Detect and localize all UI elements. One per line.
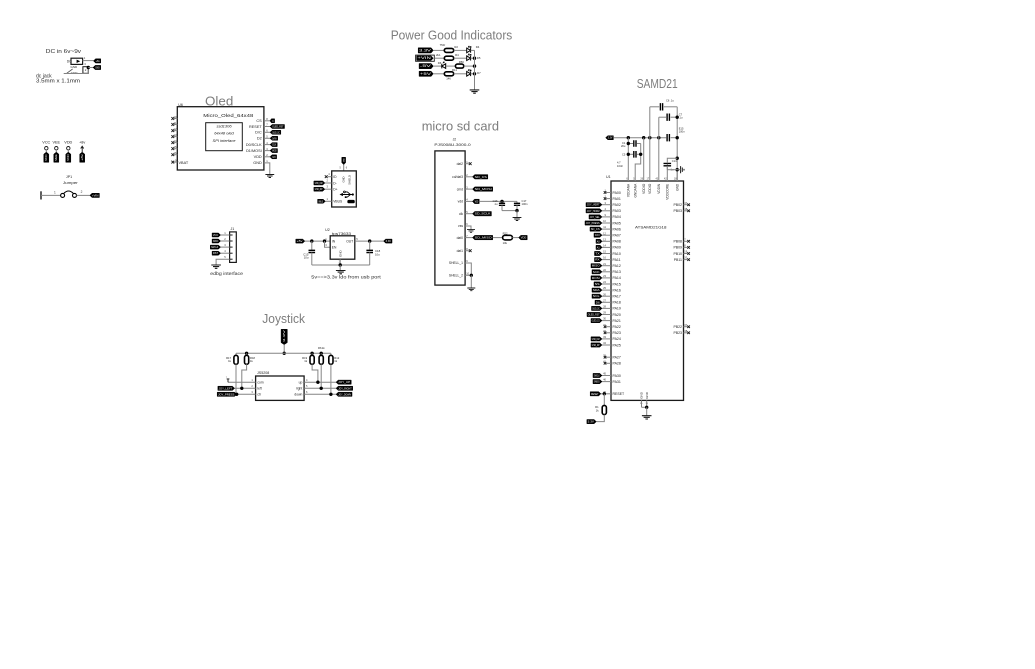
svg-text:JOY_HORZ: JOY_HORZ (587, 210, 600, 213)
svg-text:3.3V: 3.3V (588, 421, 595, 424)
svg-text:2k1: 2k1 (436, 53, 441, 57)
wire R50 to rail (464, 65, 475, 67)
svg-text:64x48 oled: 64x48 oled (214, 131, 234, 136)
wire R17 down to ctr row (235, 364, 237, 394)
svg-text:C14: C14 (672, 159, 677, 163)
svg-text:SS: SS (595, 283, 600, 286)
svg-text:GND: GND (645, 391, 649, 399)
net label VDD (vertical) (66, 152, 71, 162)
svg-text:GND: GND (253, 161, 262, 165)
capacitor C17 (516, 201, 518, 202)
svg-text:dat1: dat1 (457, 249, 464, 253)
svg-text:+VIN: +VIN (92, 194, 99, 197)
svg-text:cmd: cmd (457, 187, 463, 191)
wire to bottom ground symbol (646, 407, 648, 415)
dc barrel jack J? body (71, 58, 83, 64)
svg-text:VEE: VEE (52, 141, 60, 145)
wire VDDIO column 1 (643, 138, 645, 169)
svg-text:MOSI: MOSI (272, 150, 277, 153)
svg-text:ATSAMD21G18: ATSAMD21G18 (635, 225, 667, 230)
svg-text:GNDANA: GNDANA (634, 183, 638, 198)
JS5208 pin 3 ctr + net label JOY_PRESS (237, 393, 256, 395)
svg-text:GND: GND (71, 65, 79, 69)
J1 pin 2 + net label SWDIO (230, 240, 233, 242)
junction row2 (473, 57, 476, 60)
net label 3.3V (418, 48, 433, 53)
svg-text:OUT: OUT (346, 239, 353, 243)
svg-text:D0/SCLK: D0/SCLK (246, 143, 262, 147)
svg-text:USB_DP: USB_DP (592, 344, 600, 347)
connector J2 body (435, 151, 465, 285)
svg-text:PA04: PA04 (613, 215, 621, 219)
svg-text:10u: 10u (375, 253, 380, 257)
svg-text:100n: 100n (522, 202, 528, 206)
junction shell (470, 274, 473, 277)
svg-text:PA22: PA22 (613, 325, 621, 329)
wire label to bus (283, 345, 285, 354)
wire VDDANA column (627, 138, 629, 169)
net label VCC (vertical) (44, 152, 49, 162)
svg-text:J1: J1 (231, 227, 235, 231)
noop (667, 169, 677, 171)
svg-text:JOY_LEFT: JOY_LEFT (219, 387, 233, 390)
svg-text:JOY_UP: JOY_UP (338, 381, 350, 384)
wire R19 down to up row (312, 364, 318, 382)
wire shield label to usb body (343, 165, 345, 171)
svg-text:R11: R11 (452, 68, 457, 72)
svg-text:PB23: PB23 (673, 331, 682, 335)
svg-text:USB_DP: USB_DP (315, 188, 323, 191)
svg-text:PA11: PA11 (613, 258, 621, 262)
junction bottom gnd (645, 406, 648, 409)
wire +VIN to R4 (434, 57, 444, 59)
wire R12 down to down row (330, 364, 332, 394)
capacitor C6 (650, 106, 659, 108)
svg-text:JOY_PRESS: JOY_PRESS (218, 393, 235, 396)
ground symbol at vss (467, 230, 475, 233)
svg-text:VBUS: VBUS (318, 200, 323, 203)
svg-text:MOSI: MOSI (592, 277, 600, 280)
svg-text:R50: R50 (459, 60, 465, 64)
svg-text:U2: U2 (325, 228, 330, 232)
svg-text:VCC: VCC (42, 141, 50, 145)
net label +8v (vertical) (80, 152, 85, 162)
wire shell to ground (470, 275, 472, 288)
svg-text:down: down (294, 393, 302, 397)
wire pin1 to +8v label (83, 60, 94, 62)
svg-text:JOY_RIGHT: JOY_RIGHT (338, 387, 352, 390)
capacitor C1 (ana decoupling) (628, 143, 633, 145)
capacitor C15 (311, 241, 313, 250)
svg-text:up: up (299, 380, 303, 384)
net label VEE (vertical) (54, 152, 59, 162)
junction on supply wire (657, 136, 660, 139)
jumper JP1 symbol (61, 193, 65, 197)
net label +5V (419, 71, 433, 76)
svg-text:RX: RX (595, 259, 600, 262)
svg-text:SD_SCLK: SD_SCLK (475, 213, 491, 216)
svg-text:C5: C5 (622, 152, 626, 156)
svg-text:PA01: PA01 (613, 197, 621, 201)
svg-text:PB03: PB03 (673, 209, 682, 213)
svg-text:2: 2 (81, 190, 83, 194)
oled module U6 body (177, 107, 264, 170)
svg-text:10u: 10u (304, 256, 309, 260)
LED D5 (467, 56, 471, 61)
net label 3.3V (mcu supply) (606, 136, 614, 140)
LED D4 (467, 48, 471, 53)
svg-text:D4: D4 (476, 45, 480, 49)
svg-text:micro sd card: micro sd card (422, 119, 499, 134)
wire R22 to VDD label (512, 237, 518, 239)
svg-text:MISO: MISO (592, 265, 600, 268)
svg-text:SD_CS: SD_CS (591, 228, 600, 231)
svg-text:10: 10 (174, 115, 177, 119)
junction R6 top (320, 352, 323, 355)
svg-text:CS: CS (272, 120, 274, 123)
capacitor E15 (series on supply wire) (667, 134, 669, 141)
capacitor C14 (VDDCORE) (666, 163, 668, 169)
svg-text:SWCLK: SWCLK (594, 375, 600, 378)
svg-text:PA03: PA03 (613, 209, 621, 213)
wire pin2 to GND label (88, 67, 93, 69)
svg-text:VDD: VDD (475, 200, 479, 203)
svg-text:OLED_DC: OLED_DC (272, 131, 280, 134)
svg-text:SD_MOSI: SD_MOSI (475, 188, 492, 191)
svg-text:3.5mm x 1.1mm: 3.5mm x 1.1mm (36, 79, 80, 85)
ground symbol (sideways) at mcu gnd (681, 166, 684, 173)
svg-text:16: 16 (174, 151, 177, 155)
svg-text:PA31: PA31 (613, 380, 621, 384)
wire R6 down to right row (320, 364, 322, 388)
svg-text:VBUS: VBUS (333, 200, 343, 204)
svg-text:PA09: PA09 (613, 246, 621, 250)
svg-text:14: 14 (174, 139, 177, 143)
svg-text:+VIN: +VIN (417, 56, 432, 60)
svg-text:20u: 20u (621, 144, 626, 148)
svg-text:SHELL_1: SHELL_1 (449, 261, 463, 265)
svg-text:PA06: PA06 (613, 227, 621, 231)
ground symbol pgi (470, 90, 480, 93)
junction at C18 (368, 239, 371, 242)
svg-text:DATA: DATA (272, 137, 277, 140)
svg-text:+8v: +8v (79, 141, 85, 145)
junction C5 (627, 153, 630, 156)
svg-text:TX: TX (595, 253, 600, 256)
wire C14 bottom to gnd col (666, 166, 668, 170)
resistor R22 (503, 235, 513, 240)
svg-text:OLED_CS: OLED_CS (592, 320, 600, 323)
svg-text:VDDANA: VDDANA (627, 183, 631, 197)
svg-text:15: 15 (174, 145, 177, 149)
svg-text:13: 13 (174, 133, 177, 137)
svg-text:PA21: PA21 (613, 319, 621, 323)
svg-text:10nF: 10nF (617, 164, 623, 168)
svg-text:10k: 10k (503, 241, 508, 245)
wire jumper pin2 to label (77, 194, 90, 196)
capacitor C7 (659, 116, 666, 118)
oled NC pin 14 (174, 142, 177, 144)
wire D4 to rail (471, 49, 475, 51)
junction at EN branch (323, 239, 326, 242)
junction reset pullup (603, 392, 606, 395)
svg-text:100n: 100n (679, 130, 685, 134)
junction on ground rail (339, 263, 342, 266)
svg-text:3V3: 3V3 (272, 156, 276, 159)
svg-text:PA07: PA07 (613, 234, 621, 238)
oled NC pin 11 (174, 124, 177, 126)
junction on supply wire (648, 136, 651, 139)
JS5208 pin 2 left + net label JOY_LEFT (235, 387, 256, 389)
J1 pin 5 to ground (230, 258, 233, 260)
U2 GND pin wire (339, 259, 341, 265)
ground symbol below U2 (336, 271, 346, 274)
svg-text:D7: D7 (477, 71, 481, 75)
svg-text:PA15: PA15 (613, 282, 621, 286)
wire GNDANA column (635, 144, 641, 170)
svg-text:VDDIO: VDDIO (642, 183, 646, 194)
svg-text:JS5208: JS5208 (257, 371, 269, 375)
svg-text:PB08: PB08 (673, 240, 682, 244)
capacitor C18 (369, 241, 371, 250)
svg-text:PA05: PA05 (613, 221, 621, 225)
svg-text:PA19: PA19 (613, 307, 621, 311)
J1 pin 1 + net label VCC (230, 234, 233, 236)
svg-text:.1u: .1u (670, 98, 674, 102)
svg-text:3.3V: 3.3V (608, 137, 613, 140)
svg-text:GND: GND (95, 67, 100, 70)
svg-text:com: com (257, 380, 263, 384)
svg-text:OLED_RST: OLED_RST (272, 126, 284, 129)
svg-text:OLED_RST: OLED_RST (588, 314, 600, 317)
svg-text:SCL: SCL (593, 295, 601, 298)
svg-text:SHELL_2: SHELL_2 (449, 274, 463, 278)
svg-text:PA12: PA12 (613, 264, 621, 268)
svg-text:GND: GND (676, 183, 680, 191)
svg-text:dat2: dat2 (457, 162, 464, 166)
wire gnd col to ground (677, 169, 680, 171)
svg-text:R22: R22 (503, 232, 508, 236)
svg-text:PA20: PA20 (613, 313, 621, 317)
svg-text:clk: clk (459, 212, 463, 216)
svg-text:right: right (296, 387, 302, 391)
junction at jack pin2 (87, 66, 90, 69)
jack switch lever (64, 69, 73, 74)
svg-text:USB_DM: USB_DM (592, 338, 600, 341)
svg-text:RESET: RESET (613, 392, 626, 396)
junction R18 top (245, 352, 248, 355)
svg-text:PA28: PA28 (613, 362, 621, 366)
svg-text:PA08: PA08 (613, 240, 621, 244)
svg-text:R4: R4 (455, 53, 459, 57)
svg-text:3.3V: 3.3V (282, 330, 286, 342)
JS5208 pin 1 com wire to gnd flag (228, 381, 256, 383)
net label 3.3V (joystick supply, vertical) (281, 329, 287, 344)
resistor R2 (444, 48, 453, 52)
resistor R6 1k (320, 353, 322, 355)
wire +5V to R11 (433, 73, 444, 75)
joystick supply bus (236, 352, 331, 354)
svg-text:SWCLK: SWCLK (211, 246, 218, 249)
svg-text:PA24: PA24 (613, 337, 621, 341)
mcu U1 body ATSAMD21G18 (611, 181, 684, 400)
wire 3.3V to R2 (433, 49, 444, 51)
svg-text:D1/MOSI: D1/MOSI (246, 149, 262, 153)
svg-text:-5V: -5V (420, 64, 433, 68)
resistor R1 1k (reset pullup) (603, 394, 605, 406)
svg-text:D/C: D/C (255, 131, 262, 135)
svg-text:GND: GND (339, 250, 343, 258)
svg-text:edbg interface: edbg interface (210, 271, 243, 277)
usb connector X1 shield net label (vertical) (342, 157, 346, 164)
svg-text:DC in 6v~9v: DC in 6v~9v (46, 49, 81, 55)
LED D7 (467, 72, 471, 77)
svg-text:VBAT: VBAT (179, 161, 189, 165)
svg-text:JOY_SEL: JOY_SEL (590, 216, 600, 219)
svg-text:VDD: VDD (67, 154, 70, 161)
svg-text:GND: GND (640, 391, 644, 399)
ground symbol below oled (265, 175, 274, 178)
svg-text:D+: D+ (333, 188, 337, 192)
svg-text:SCLK: SCLK (272, 144, 276, 147)
resistor R19 1k (311, 353, 313, 355)
JS5208 pin 6 down + net label JOY_DOWN (304, 393, 336, 395)
svg-text:.1u: .1u (494, 202, 498, 206)
wire D6 to R50 (446, 65, 456, 67)
svg-text:PA23: PA23 (613, 331, 621, 335)
svg-text:RESET: RESET (591, 393, 599, 396)
wire VBUS to U2 IN (305, 240, 330, 242)
svg-text:U1: U1 (606, 175, 611, 179)
net label 3.3V (U2 output) (384, 239, 393, 243)
wire R18 down to left row (242, 364, 247, 388)
svg-text:DC: DC (67, 60, 72, 64)
wire VDDIO column 2 up to C6 (649, 107, 651, 169)
svg-text:JP1: JP1 (66, 175, 72, 179)
svg-text:JOY_VERT: JOY_VERT (587, 204, 600, 207)
ground symbol below caps (513, 218, 522, 221)
svg-text:VDDCORE: VDDCORE (666, 184, 670, 200)
wire to ground (516, 211, 518, 218)
JS5208 pin 5 right + net label JOY_RIGHT (304, 387, 336, 389)
svg-text:PA16: PA16 (613, 288, 621, 292)
svg-text:3.3V: 3.3V (419, 48, 432, 52)
svg-text:PA17: PA17 (613, 295, 621, 299)
resistor R18 1k (246, 353, 248, 355)
wire joining GND pins (642, 406, 647, 408)
junction at bus center (283, 352, 286, 355)
JS5208 pin 4 up + net label JOY_UP (304, 381, 336, 383)
junction on supply wire (627, 136, 630, 139)
svg-text:Jumper: Jumper (63, 181, 79, 185)
svg-text:VCC: VCC (45, 154, 48, 161)
junction at C16 (500, 200, 503, 203)
svg-text:SWDIO: SWDIO (213, 240, 218, 243)
svg-text:SPI interface: SPI interface (213, 138, 237, 143)
svg-text:vdd: vdd (458, 200, 463, 204)
svg-text:3.3V: 3.3V (386, 240, 392, 243)
hierarchical label +VIN (416, 55, 435, 61)
junction cap gnd (515, 209, 518, 212)
wire VDDIN column up to C7 (658, 117, 660, 169)
svg-text:VDD: VDD (64, 141, 72, 145)
svg-text:Joystick: Joystick (262, 311, 305, 326)
net label 3.3V (reset pullup) (587, 420, 596, 424)
svg-text:SAMD21: SAMD21 (637, 76, 678, 91)
svg-text:D2: D2 (257, 137, 262, 141)
wire R1 to 3.3V label (596, 415, 604, 422)
junction at C15 (310, 239, 313, 242)
svg-text:.1u: .1u (679, 116, 683, 120)
oled NC pin 15 (174, 148, 177, 150)
resistor R50 (455, 64, 463, 68)
svg-text:VEE: VEE (55, 154, 58, 161)
svg-text:750r: 750r (440, 43, 446, 47)
svg-text:VDDIO: VDDIO (648, 183, 652, 194)
junction gnd col bottom (676, 168, 679, 171)
svg-text:Power Good Indicators: Power Good Indicators (391, 27, 513, 42)
svg-text:SWDIO: SWDIO (594, 381, 600, 384)
svg-text:5v==>3.3v ldo from usb port: 5v==>3.3v ldo from usb port (311, 275, 381, 281)
junction gnd col E15 (676, 136, 679, 139)
regulator U2 body (330, 236, 355, 259)
net label VBUS (input to U2) (296, 239, 305, 243)
svg-text:GND: GND (71, 71, 79, 75)
svg-text:12: 12 (174, 127, 177, 131)
svg-text:PB09: PB09 (673, 246, 682, 250)
svg-text:D5: D5 (477, 56, 481, 60)
usb connector X1 body (332, 171, 357, 207)
J1 pin 4 + net label RST (230, 252, 233, 254)
usb connector filled tab (347, 200, 354, 203)
svg-text:PB10: PB10 (673, 252, 682, 256)
svg-text:SCK: SCK (593, 271, 600, 274)
wire R11 to D7 (454, 73, 467, 75)
svg-text:USB_DM: USB_DM (315, 182, 323, 185)
wire R2 to D4 (454, 49, 467, 51)
usb trident logo (342, 192, 353, 197)
resistor R17 1k (235, 353, 237, 355)
wire R4 to D5 (454, 57, 467, 59)
svg-text:PA18: PA18 (613, 301, 621, 305)
svg-text:1: 1 (54, 191, 56, 195)
svg-text:ssd1306: ssd1306 (216, 124, 232, 129)
oled inner box ssd1306 note (206, 123, 243, 151)
LED D6 (442, 64, 446, 69)
junction row4 (473, 72, 476, 75)
svg-text:146: 146 (446, 77, 451, 81)
net label -5V (419, 64, 433, 69)
svg-text:GND: GND (344, 158, 346, 162)
mcu right ground column (676, 107, 678, 181)
svg-text:CS: CS (256, 119, 262, 123)
oled NC pin 16 (174, 154, 177, 156)
wire to ground symbol (339, 265, 341, 270)
ground symbol below shell (467, 288, 475, 291)
svg-text:VCC: VCC (213, 234, 219, 237)
connector J1 body (230, 232, 237, 263)
svg-text:PB02: PB02 (673, 203, 682, 207)
svg-text:GND: GND (342, 176, 346, 182)
U2 OUT wire to 3.3V label (355, 240, 384, 242)
svg-text:R2: R2 (454, 45, 458, 49)
U2 ground rail wire (312, 264, 370, 266)
junction gnd col C7 (676, 116, 679, 119)
net label VDD (pullup) (519, 235, 528, 239)
mcu supply wire (613, 137, 666, 139)
svg-text:PJS008U-3000-0: PJS008U-3000-0 (434, 143, 470, 147)
oled NC pin 12 (174, 130, 177, 132)
